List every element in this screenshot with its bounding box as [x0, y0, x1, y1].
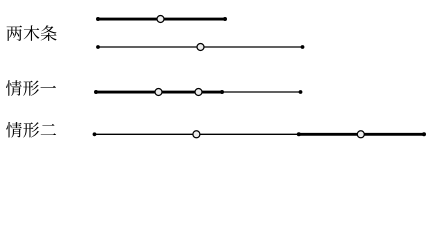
case 1 thin strip midpoint circle: [195, 89, 202, 96]
case 2 thin strip segment: [95, 133, 299, 135]
case 2 right endpoint dot: [422, 132, 426, 136]
case 2 thick strip midpoint circle: [357, 131, 364, 138]
label 两木条 (two wooden strips): [7, 25, 57, 41]
case 1 thick strip midpoint circle: [155, 89, 162, 96]
case 2 junction dot: [297, 132, 301, 136]
case 1 left endpoint dot: [94, 90, 98, 94]
strip 1 left endpoint dot: [96, 17, 100, 21]
case 2 thick strip segment: [299, 133, 424, 136]
case 2 left endpoint dot: [93, 132, 97, 136]
strip 1 midpoint circle: [157, 16, 164, 23]
label 情形一 (case 1): [6, 80, 56, 96]
case 1 thick strip right endpoint dot: [220, 90, 224, 94]
strip 2 left endpoint dot: [96, 45, 100, 49]
strip 2 midpoint circle: [197, 44, 204, 51]
case 1 thin strip right endpoint dot: [299, 90, 303, 94]
label 情形二 (case 2): [6, 122, 56, 138]
strip 1 (thick wooden strip, top): [98, 18, 225, 21]
case 1 thick strip segment: [96, 91, 222, 94]
case 2 thin strip midpoint circle: [193, 131, 200, 138]
case 1 thin strip visible segment: [222, 91, 301, 93]
strip 1 right endpoint dot: [223, 17, 227, 21]
strip 2 (thin wooden strip, second row): [98, 46, 303, 48]
strip 2 right endpoint dot: [301, 45, 305, 49]
